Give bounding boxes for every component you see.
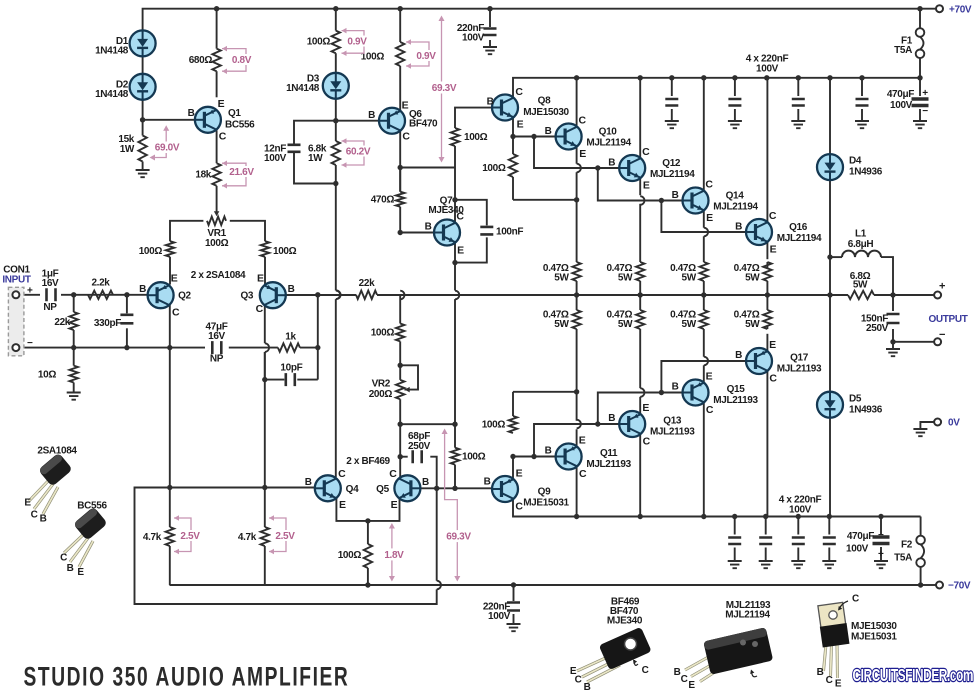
wire Q6 base (336, 120, 379, 122)
ground bottom cap 766 (759, 561, 773, 568)
svg-text:B: B (288, 284, 295, 295)
wire loop top hop segment (436, 488, 438, 580)
wire Q14 E hi (703, 211, 705, 228)
wire 220nF-tl top (489, 9, 491, 27)
wire Q12 E lo (639, 204, 641, 262)
resistor 100R-e bias (364, 544, 372, 568)
wire Q16 E lo (766, 262, 768, 268)
wire 0.47R-3 to rail (703, 281, 705, 295)
svg-text:Q2: Q2 (178, 291, 191, 302)
capacitor 12nF 100V (288, 145, 301, 152)
diode D2 1N4148 (130, 74, 156, 100)
label D2 (95, 80, 129, 101)
wire 18k to VR1 wiper (216, 186, 218, 212)
svg-text:C: C (219, 130, 227, 142)
wire 150nF top (892, 295, 894, 311)
connector CON1 dashed box (8, 287, 24, 356)
capacitor 220nF 100V #3 (792, 99, 805, 106)
svg-text:Q16: Q16 (789, 222, 808, 233)
wire Q17 E lo (766, 325, 768, 329)
resistor 0.47R 5W #7 (700, 310, 708, 329)
svg-text:B: B (672, 190, 679, 201)
wire Q17 E hi (766, 334, 768, 351)
svg-text:2.5V: 2.5V (180, 531, 200, 542)
resistor 100R right tail (261, 241, 269, 257)
svg-text:100V: 100V (890, 100, 913, 111)
junction D2-Q1 base (140, 117, 145, 122)
wire input- line (19, 347, 205, 349)
svg-text:100nF: 100nF (496, 227, 523, 238)
label 0.47R #7 (670, 310, 697, 331)
terminal input + circle (12, 291, 19, 298)
wire Q6C node to 100R-c (399, 168, 401, 192)
svg-text:5W: 5W (554, 319, 569, 330)
resistor 0.47R 5W #8 (763, 310, 771, 329)
junctions bottom cap rail (574, 514, 884, 519)
svg-text:100Ω: 100Ω (464, 132, 488, 143)
wire +70V rail (143, 9, 936, 31)
wire 220nF top col 735 gnd (734, 109, 736, 121)
svg-text:CIRCUITSFINDER.com: CIRCUITSFINDER.com (853, 666, 974, 686)
svg-text:INPUT: INPUT (2, 275, 30, 286)
label Q7 (428, 196, 464, 217)
junction 10pF tap (262, 377, 267, 382)
svg-text:Q12: Q12 (662, 158, 681, 169)
wire 68pF left arm (400, 456, 408, 458)
svg-text:5W: 5W (618, 319, 633, 330)
wire Q6C to Q8B link (400, 167, 455, 169)
wire Q5 B to 100R-f (418, 487, 456, 489)
svg-text:C: C (769, 210, 777, 222)
wire 220nF top col 672 gnd (671, 109, 673, 121)
label 220nF top-left (457, 23, 485, 44)
svg-text:E: E (402, 99, 409, 111)
wire hop 22k over bias chain (336, 291, 340, 300)
capacitor 220nF 100V #4 (856, 99, 869, 106)
terminal input - circle (12, 344, 19, 351)
svg-text:E: E (457, 245, 464, 257)
svg-text:−: − (922, 106, 928, 117)
svg-text:200Ω: 200Ω (369, 389, 393, 400)
svg-text:250V: 250V (408, 441, 431, 452)
svg-text:D4: D4 (849, 156, 862, 167)
junction gnd line 330pF (124, 345, 129, 350)
transistor Q15 MJL21193 (683, 371, 714, 417)
wire to minus terminal (893, 341, 934, 343)
wire 22k to 6.8R (377, 294, 848, 296)
wire 100R-a to D3 (335, 53, 337, 73)
wire Q8 E (512, 118, 514, 154)
wire 470uF gnd lead (919, 109, 921, 121)
label 0.47R #5 (543, 310, 570, 331)
wire 100R-b to Q6 E (399, 66, 401, 111)
wire Q3 B to 22k (286, 294, 356, 296)
terminal 0V (934, 419, 941, 426)
fuse F1 T5A (916, 28, 925, 58)
wire 220nF col 735 top (734, 517, 736, 535)
wire VR2 node to Q7E col (400, 423, 455, 425)
wire Q7 base (400, 232, 434, 234)
junction stair3b riser (659, 390, 664, 395)
resistor 4.7k left (166, 527, 174, 546)
junction stair2b riser (595, 421, 600, 426)
annotation 69.3V bottom (442, 429, 474, 582)
label 4x220nF top (746, 54, 789, 75)
annotation 2.5V left (174, 515, 204, 554)
title STUDIO 350 AUDIO AMPLIFIER (24, 661, 350, 691)
capacitor 68pF (413, 450, 422, 463)
transistor Q9 MJE15031 (492, 467, 523, 512)
svg-text:E: E (835, 679, 842, 690)
wire 220nF-bl gnd lead (513, 614, 515, 624)
svg-text:T5A: T5A (894, 553, 912, 564)
resistor 470R (396, 192, 404, 207)
junction 68pF right drop (434, 486, 439, 491)
wire F1 bot lead (919, 58, 921, 78)
capacitor 220nF 100V #8 (823, 538, 836, 545)
wire rail to D4 (829, 78, 831, 154)
svg-text:B: B (425, 222, 432, 233)
wire 47uF to 1k (229, 347, 278, 349)
wire 220nF-bl top (513, 585, 515, 601)
svg-text:C: C (402, 130, 410, 142)
label 12nF 100V (264, 144, 287, 165)
svg-text:Q1: Q1 (228, 108, 241, 119)
transistor Q6 BF470 (379, 99, 410, 142)
wire Q15 C (703, 403, 705, 517)
svg-text:E: E (24, 498, 31, 509)
transistor Q17 MJL21193 (746, 339, 777, 385)
svg-text:10pF: 10pF (280, 363, 302, 374)
wire F1 top lead (919, 9, 921, 29)
wire Q12 E hi (639, 178, 641, 195)
junction F2 -rail (918, 582, 923, 587)
wire 220nF top col 798 (797, 78, 799, 96)
wire Q13 C (639, 434, 641, 516)
wire 0.47R-7 to rail (703, 295, 705, 310)
svg-text:B: B (545, 446, 552, 457)
ground 15k (136, 170, 150, 177)
wire top cap rail (513, 78, 920, 98)
capacitor 100nF Q7 (480, 227, 493, 235)
wire Q12 C (639, 78, 641, 158)
label Q1 (225, 108, 255, 131)
label 0.47R #8 (734, 310, 761, 331)
svg-text:2.5V: 2.5V (275, 531, 295, 542)
resistor 2.2k (88, 291, 113, 299)
wire 220nF col 766 bot (765, 548, 767, 562)
label 4x220nF bottom (779, 495, 822, 516)
wire 150nF gnd lead (892, 342, 894, 349)
wire 68pF right arm (430, 457, 436, 489)
junction Q2 C gnd line (167, 345, 172, 350)
resistor 15k 1W (138, 136, 146, 162)
junction Q7E-VR2 link (452, 422, 457, 427)
svg-text:B: B (584, 682, 591, 691)
svg-text:MJE340: MJE340 (607, 616, 643, 627)
wire 100nF bot arm (455, 237, 487, 262)
label 0.47R #3 (670, 263, 697, 284)
wire 0.47R-4 to rail (766, 281, 768, 295)
capacitor 220nF 100V #2 (728, 99, 741, 106)
resistor VR1 100R (207, 217, 226, 225)
badge CIRCUITSFINDER.com (853, 666, 974, 686)
label 15k 1W (118, 134, 135, 155)
svg-text:1N4148: 1N4148 (95, 46, 129, 57)
resistor 10R (70, 366, 78, 383)
capacitor 1uF 16V NP input (47, 288, 56, 301)
label D1 (95, 36, 129, 57)
label D4 (849, 156, 883, 178)
svg-text:E: E (642, 402, 649, 414)
wire VR2 col to Q5 C (399, 424, 401, 477)
svg-text:E: E (579, 148, 586, 160)
resistor 0.47R 5W #4 (763, 262, 771, 281)
label 0.47R #6 (606, 310, 633, 331)
junction stair3 riser (659, 198, 664, 203)
svg-text:1N4936: 1N4936 (849, 405, 883, 416)
wire divider riser (317, 295, 319, 348)
resistor VR2 200R (396, 380, 404, 399)
label Q17 (777, 352, 822, 374)
svg-text:1N4148: 1N4148 (95, 89, 129, 100)
svg-text:2 x 2SA1084: 2 x 2SA1084 (191, 270, 246, 281)
svg-text:E: E (706, 212, 713, 224)
svg-text:E: E (643, 180, 650, 192)
wire Q10 C (576, 78, 578, 126)
wire Q15 E hi (703, 365, 705, 382)
svg-text:0.8V: 0.8V (232, 55, 252, 66)
svg-text:NP: NP (210, 354, 224, 365)
svg-text:2.2k: 2.2k (91, 278, 110, 289)
transistor Q1 BC556 (195, 98, 227, 143)
svg-text:Q4: Q4 (346, 484, 359, 495)
svg-text:Q11: Q11 (600, 448, 618, 459)
junctions top cap rail (574, 75, 923, 80)
svg-text:0.9V: 0.9V (416, 51, 436, 62)
label Q13 (650, 415, 695, 437)
junction 100R-g on Q10E (574, 197, 579, 202)
junction divider mid (315, 345, 320, 350)
label Q14 (713, 191, 758, 213)
svg-text:NP: NP (43, 302, 57, 313)
wire stair riser1 (534, 137, 619, 169)
wire Q14 E lo (703, 236, 705, 262)
svg-text:5W: 5W (681, 273, 696, 284)
svg-text:MJL21194: MJL21194 (777, 233, 822, 244)
wire 470R to Q7 B node (399, 207, 401, 233)
svg-text:E: E (517, 119, 524, 131)
terminal input + (12, 291, 19, 298)
label 0.47R #1 (543, 263, 570, 284)
wire hop Q14 E over stair4 (704, 228, 708, 237)
annotation 0.9V b (406, 39, 440, 69)
ground top cap 672 (665, 121, 679, 128)
svg-text:BF470: BF470 (409, 119, 438, 130)
wire 1uF to Q2 B (61, 294, 148, 296)
svg-text:Q15: Q15 (727, 384, 746, 395)
label Q16 (777, 222, 822, 244)
svg-text:470Ω: 470Ω (371, 195, 395, 206)
capacitor 47uF 16V NP (212, 341, 221, 354)
svg-text:F2: F2 (901, 540, 913, 551)
svg-text:4.7k: 4.7k (143, 532, 162, 543)
svg-text:E: E (257, 273, 264, 285)
resistor 680R (212, 49, 220, 72)
junction Q9 E node (510, 454, 515, 459)
svg-text:69.3V: 69.3V (432, 83, 457, 94)
svg-text:B: B (67, 563, 74, 574)
svg-text:69.3V: 69.3V (446, 532, 471, 543)
wire 100R to Q3 E (264, 257, 266, 285)
wire 15k to ground (142, 162, 144, 171)
svg-text:C: C (31, 510, 38, 521)
svg-text:1W: 1W (308, 153, 323, 164)
wire 220nF col 735 bot (734, 548, 736, 562)
wire 10R top (73, 348, 75, 366)
svg-text:21.6V: 21.6V (229, 167, 254, 178)
label 470uF top (887, 88, 928, 117)
svg-text:C: C (681, 674, 688, 685)
svg-text:MJE15030: MJE15030 (523, 107, 569, 118)
ground bottom cap 881 (874, 561, 888, 568)
svg-text:100Ω: 100Ω (482, 420, 506, 431)
label 0.47R #2 (606, 263, 633, 284)
wire Q3 C (264, 305, 266, 344)
capacitor 220nF 100V #7 (792, 538, 805, 545)
label Q6 (409, 109, 438, 130)
wire 220nF col 829 bot (828, 548, 830, 562)
wire VR2 node (399, 365, 401, 380)
wire 100R-f (454, 465, 456, 489)
wire stair riser2 (598, 168, 683, 201)
svg-text:MJL21193: MJL21193 (586, 459, 631, 470)
resistor 100R-f Q5/Q9 base (451, 448, 459, 465)
svg-text:C: C (172, 307, 180, 319)
junctions output rail (574, 292, 896, 297)
svg-text:100Ω: 100Ω (462, 452, 486, 463)
wire Q2 4.7k to -rail (169, 546, 171, 585)
wire Q7 C (454, 200, 456, 223)
transistor Q10 MJL21194 (556, 115, 587, 161)
wire F2 bot lead (920, 567, 922, 585)
wire 22k-in to gnd line (73, 330, 75, 348)
svg-text:E: E (706, 371, 713, 383)
wire Q16 C (766, 78, 768, 222)
wire Q13 E lo (639, 329, 641, 388)
wire 330pF to gnd line (126, 328, 128, 347)
wire hop loop over -rail (437, 581, 441, 590)
svg-text:E: E (391, 499, 398, 511)
wire Q6 C down (399, 131, 401, 192)
svg-text:16V: 16V (208, 331, 225, 342)
svg-text:C: C (60, 553, 67, 564)
svg-text:B: B (422, 477, 429, 488)
junction input 330pF (124, 292, 129, 297)
svg-text:0.9V: 0.9V (347, 37, 367, 48)
wire 680R to Q1 E (216, 71, 218, 97)
junction 220nF-bl -rail (511, 582, 516, 587)
wire Q7E down lo (454, 299, 456, 424)
label Q10 (586, 127, 631, 149)
junction stair2 riser (595, 165, 600, 170)
transistor Q5 BF469 (389, 468, 420, 511)
junction bias bottom (333, 181, 338, 186)
wire Q8 base (455, 108, 492, 128)
label L1 (848, 229, 874, 251)
svg-text:1.8V: 1.8V (384, 550, 404, 561)
transistor Q16 MJL21194 (746, 210, 777, 256)
wire stair1b (513, 456, 556, 458)
capacitor 330pF (120, 315, 133, 324)
svg-text:+: + (922, 88, 928, 99)
junction Q6C-link (398, 165, 403, 170)
diode D1 1N4148 (130, 30, 156, 56)
capacitor 470uF 100V top (912, 99, 929, 106)
ground 220nF top-left (483, 47, 497, 54)
wire 220nF top col 672 (671, 78, 673, 96)
svg-text:D5: D5 (849, 394, 862, 405)
transistor Q2 2SA1084 (148, 273, 180, 319)
resistor 22k fb (356, 291, 377, 299)
wire F2 top lead (920, 517, 922, 536)
svg-text:18k: 18k (195, 170, 211, 181)
junction VR2 bottom node (398, 422, 403, 427)
wire 330pF drop (126, 295, 128, 314)
wire 100R-e top (367, 521, 369, 544)
wire link node to Q7C (454, 168, 456, 200)
ground top cap 735 (728, 121, 742, 128)
svg-text:16V: 16V (42, 278, 59, 289)
svg-text:C: C (852, 594, 859, 605)
svg-text:MJE15031: MJE15031 (851, 632, 897, 643)
wire Q7E node to 100R-f (454, 424, 456, 448)
svg-text:E: E (339, 499, 346, 511)
wire Q15 E lo (703, 329, 705, 357)
svg-text:B: B (545, 126, 552, 137)
annotation 0.8V (222, 46, 256, 74)
svg-text:B: B (735, 222, 742, 233)
wire D2 to node B1 (142, 56, 144, 73)
wire bias chain low (335, 299, 337, 477)
svg-text:B: B (674, 667, 681, 678)
svg-text:B: B (608, 413, 615, 424)
wire out node to D5 (829, 295, 831, 392)
svg-text:5W: 5W (745, 273, 760, 284)
wire stair riser1b (534, 424, 619, 457)
svg-text:22k: 22k (54, 317, 70, 328)
wire 0.47R-2 to rail (639, 281, 641, 295)
capacitor 220nF 100V #6 (759, 538, 772, 545)
wire Q11 C (576, 467, 578, 517)
svg-text:Q17: Q17 (790, 352, 809, 363)
junction 100R-h on Q11E (574, 389, 579, 394)
resistor 0.47R 5W #6 (636, 310, 644, 329)
wire Q7 E (454, 243, 456, 263)
wire hop Q7E col over output rail (455, 291, 459, 300)
label 100R-a (307, 37, 331, 48)
wire 220nF top col 735 (734, 78, 736, 96)
wire Q1 base (143, 119, 204, 121)
resistor 100R left tail (166, 241, 174, 257)
wire 220nF top col 862 gnd (861, 109, 863, 121)
wire Q10 E lo (576, 172, 578, 262)
label VR1 (205, 228, 229, 249)
resistor 1k fb (278, 343, 300, 351)
svg-text:C: C (642, 665, 649, 676)
wire hop Q11 E over stair2b (577, 420, 581, 429)
svg-text:E: E (770, 244, 777, 256)
